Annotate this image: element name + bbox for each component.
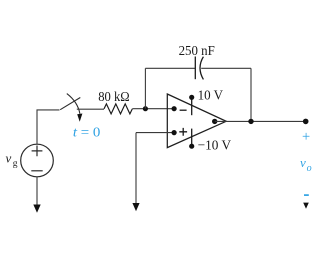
noninverting input node: [172, 130, 177, 135]
wire resistor to op-amp inverting input: [132, 108, 174, 110]
output node inside op-amp: [212, 119, 217, 124]
ground arrow below noninverting input: [132, 133, 139, 212]
svg-text:g: g: [13, 159, 18, 169]
capacitor C 250nF: [195, 57, 203, 80]
node feedback junction: [143, 106, 148, 111]
switch cross tick: [67, 94, 83, 122]
wire switch to resistor: [77, 108, 104, 110]
negative supply pin: [189, 129, 194, 149]
inverting input node: [172, 106, 177, 111]
svg-text:80 kΩ: 80 kΩ: [98, 90, 130, 105]
svg-text:v: v: [6, 151, 12, 166]
svg-text:250 nF: 250 nF: [179, 44, 215, 59]
voltage source vg: [21, 144, 54, 177]
wire source to switch: [37, 110, 60, 144]
svg-text:t = 0: t = 0: [73, 125, 101, 140]
wire feedback right vertical: [250, 68, 252, 121]
positive supply pin: [189, 95, 194, 115]
node output feedback junction: [248, 119, 253, 124]
wire feedback top left: [145, 67, 195, 69]
label minus output: [304, 194, 309, 196]
minus sign inverting: [180, 109, 187, 111]
terminal node output: [303, 119, 309, 125]
wire feedback left vertical: [144, 68, 146, 108]
resistor 80 kOhm: [104, 104, 132, 114]
op-amp U1 triangle: [167, 94, 226, 148]
svg-text:10 V: 10 V: [198, 88, 223, 103]
wire output: [215, 120, 306, 122]
svg-text:+: +: [302, 129, 310, 145]
switch blade: [60, 98, 80, 110]
plus sign noninverting: [179, 128, 187, 136]
svg-text:v: v: [300, 155, 306, 170]
wire cap to feedback right vertical: [201, 67, 251, 69]
svg-text:−10 V: −10 V: [198, 138, 231, 153]
svg-text:o: o: [307, 163, 312, 174]
noninverting input wire: [136, 132, 174, 134]
ground arrow output: [303, 203, 309, 209]
ground arrow below source: [33, 177, 40, 213]
